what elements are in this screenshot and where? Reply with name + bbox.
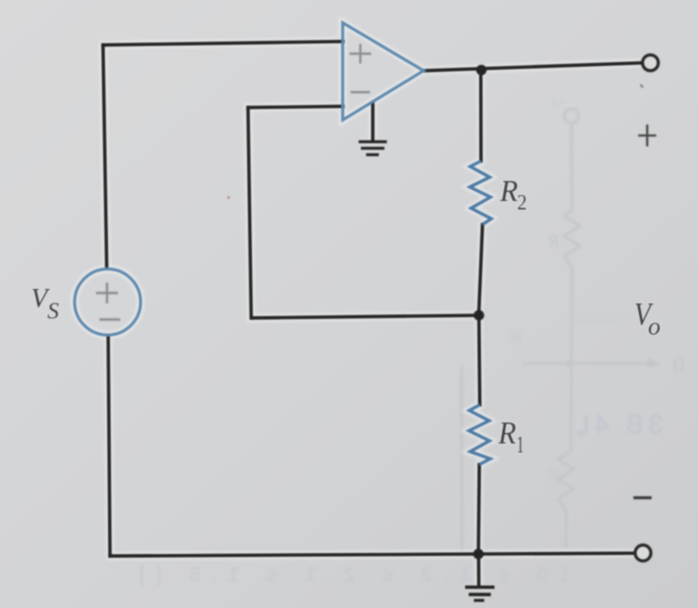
svg-text:S: S <box>47 299 59 325</box>
svg-text:b°: b° <box>552 97 565 112</box>
svg-text:2: 2 <box>517 190 527 215</box>
svg-text:3B 4Ļ: 3B 4Ļ <box>570 409 663 439</box>
svg-text:R: R <box>547 466 560 487</box>
svg-text:R: R <box>548 232 561 253</box>
svg-text:R: R <box>499 173 518 208</box>
svg-text:1: 1 <box>516 432 524 458</box>
svg-text:10 ≤ 1.2 ≤ 2.1 ≤ 1.5 []: 10 ≤ 1.2 ≤ 2.1 ≤ 1.5 [] <box>128 564 570 586</box>
svg-text:o: o <box>648 313 661 340</box>
svg-text:ıq: ıq <box>509 328 522 345</box>
svg-text:0: 0 <box>673 353 685 378</box>
svg-text:R: R <box>497 415 516 451</box>
